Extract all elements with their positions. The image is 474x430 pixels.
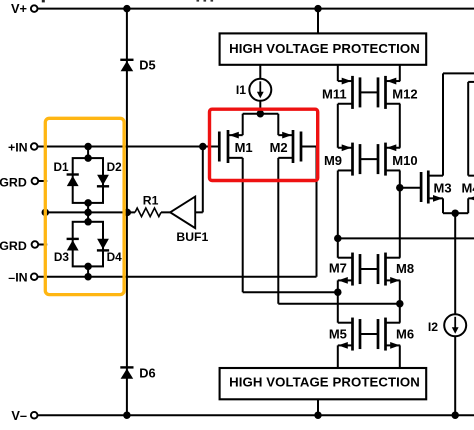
svg-text:D1: D1 [54, 160, 70, 174]
svg-text:M6: M6 [396, 327, 414, 342]
svg-text:HIGH VOLTAGE PROTECTION: HIGH VOLTAGE PROTECTION [229, 41, 420, 56]
svg-text:M1: M1 [235, 140, 253, 155]
svg-text:R1: R1 [143, 193, 159, 207]
svg-text:M2: M2 [270, 140, 288, 155]
svg-text:GRD: GRD [0, 239, 27, 253]
svg-text:M3: M3 [434, 180, 452, 195]
svg-text:D3: D3 [54, 250, 70, 264]
svg-text:HIGH VOLTAGE PROTECTION: HIGH VOLTAGE PROTECTION [229, 375, 420, 390]
svg-text:M4: M4 [462, 180, 474, 195]
svg-text:M8: M8 [396, 261, 414, 276]
svg-text:BUF1: BUF1 [176, 230, 208, 244]
svg-text:D4: D4 [107, 250, 123, 264]
svg-text:M7: M7 [329, 260, 347, 275]
svg-text:GRD: GRD [0, 175, 27, 189]
svg-text:M11: M11 [322, 87, 347, 102]
svg-text:I2: I2 [428, 320, 438, 334]
svg-text:I1: I1 [236, 83, 246, 97]
svg-text:V–: V– [11, 408, 27, 423]
svg-text:D6: D6 [139, 366, 155, 381]
svg-text:M9: M9 [324, 153, 342, 168]
svg-text:D2: D2 [107, 160, 123, 174]
svg-text:+IN: +IN [8, 140, 28, 154]
svg-text:V+: V+ [11, 1, 27, 16]
svg-text:M12: M12 [392, 87, 417, 102]
svg-text:–IN: –IN [8, 271, 27, 285]
svg-text:D5: D5 [139, 58, 155, 73]
svg-text:M10: M10 [392, 153, 417, 168]
svg-text:M5: M5 [329, 327, 347, 342]
